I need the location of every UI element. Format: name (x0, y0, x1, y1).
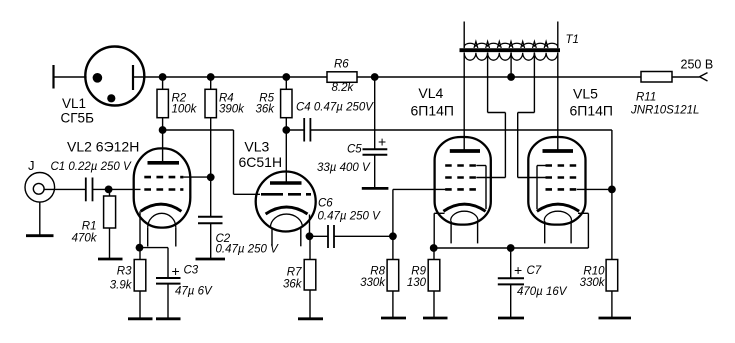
svg-text:+: + (378, 134, 386, 150)
svg-text:100k: 100k (172, 104, 198, 116)
wire (R11 to terminal) (672, 76, 700, 78)
wire (cathode to C3) (140, 248, 169, 278)
transformer T1 secondary winding (464, 43, 558, 47)
wire B+ rail right (357, 76, 641, 78)
VL3 anode bar (270, 181, 302, 185)
svg-text:330k: 330k (360, 277, 386, 289)
resistor R10 (606, 189, 618, 317)
resistor R4 (205, 77, 216, 177)
svg-text:8.2k: 8.2k (332, 82, 355, 94)
svg-text:+: + (172, 263, 180, 279)
svg-text:33µ 400 V: 33µ 400 V (317, 162, 371, 174)
wire B+ rail left (163, 76, 327, 78)
resistor R2 (157, 77, 168, 130)
wire (VL1 to rail) (132, 76, 162, 78)
svg-text:C1 0.22µ 250 V: C1 0.22µ 250 V (51, 161, 132, 173)
wire (junction up to VL4 grid) (393, 189, 446, 236)
VL1 anode bar (132, 65, 134, 90)
node (VL2 cathode junction) (136, 244, 144, 252)
wire (VL3 cathode lead) (309, 215, 311, 237)
VL1 cathode dot (93, 73, 103, 83)
resistor R6 (327, 72, 357, 83)
svg-text:R11: R11 (636, 92, 656, 104)
ground (jack) (26, 234, 54, 237)
wire (VL4 cathode lead) (434, 213, 444, 248)
wire (VL5 cathode lead) (578, 213, 588, 248)
svg-text:36k: 36k (255, 104, 275, 116)
wire (VL3 heater legs) (272, 228, 301, 246)
wire (T1 UL tap to VL5 screen) (518, 52, 535, 177)
ground (C2) (196, 258, 226, 261)
wire (T1 UL tap to VL4 screen) (488, 52, 506, 177)
capacitor C1 (86, 178, 93, 202)
VL5 screen grid g2 (546, 176, 577, 179)
wire (VL2 anode lead) (162, 130, 164, 163)
svg-text:390k: 390k (219, 104, 245, 116)
VL5 suppressor grid g3 (546, 164, 577, 167)
VL2 anode bar (148, 161, 180, 165)
svg-text:130: 130 (407, 277, 427, 289)
wire (jack to C1) (44, 188, 86, 190)
wire (VL3 anode lead) (285, 130, 287, 183)
resistor R3 (134, 248, 146, 318)
tube VL4 envelope (435, 137, 491, 225)
wire (T1 left end to VL4 anode) (463, 52, 465, 151)
svg-text:T1: T1 (566, 34, 579, 46)
capacitor C4 (304, 118, 310, 142)
svg-text:6П14П: 6П14П (570, 102, 613, 118)
capacitor C2 (198, 217, 223, 223)
ground (R9) (423, 317, 448, 320)
node (VL5 g1 / R10 / C4 line) (608, 186, 616, 194)
wire (T1 centre tap to rail) (510, 52, 512, 77)
node (C6 / R8 / VL4 grid) (389, 232, 397, 240)
VL5 anode bar (543, 149, 574, 153)
wire (T1 right end to VL5 anode) (557, 52, 559, 151)
VL2 heater (148, 213, 176, 227)
resistor R5 (281, 77, 292, 130)
ground (C3) (156, 317, 181, 320)
svg-text:3.9k: 3.9k (110, 280, 133, 292)
svg-text:VL2 6Э12Н: VL2 6Э12Н (67, 139, 139, 155)
wire (VL5 g1 to R10 node) (577, 188, 612, 190)
VL5 control grid g1 (546, 188, 577, 191)
wire (C7 to ground) (510, 284, 512, 317)
wire (rail to C5) (374, 77, 376, 149)
resistor R7 (304, 236, 316, 318)
VL4 control grid g1 (445, 188, 476, 191)
wire (R5 node to C4) (286, 129, 304, 131)
transformer T1 core (460, 48, 561, 52)
svg-text:R9: R9 (411, 266, 426, 278)
svg-text:R8: R8 (370, 266, 385, 278)
VL4 suppressor grid g3 (445, 164, 476, 167)
wire (VL4 g2 stub to UL tap) (476, 177, 505, 179)
wire (to VL1) (54, 76, 87, 78)
wire (C4 to VL5 grid riser) (310, 130, 612, 189)
wire (VL4 heater legs) (451, 221, 478, 244)
capacitor C3 (156, 278, 181, 284)
VL5 heater (544, 211, 571, 221)
svg-text:C5: C5 (347, 144, 362, 156)
resistor R11 (641, 72, 672, 83)
svg-text:R7: R7 (287, 267, 302, 279)
ground (R1) (98, 258, 123, 261)
capacitor C7 (498, 278, 524, 284)
VL2 screen grid g2 (144, 176, 175, 179)
VL3 heater (270, 214, 302, 227)
svg-text:R3: R3 (117, 266, 132, 278)
terminal 250 B (700, 73, 708, 81)
svg-text:C3: C3 (184, 265, 199, 277)
wire (VL2 cathode lead) (139, 211, 141, 247)
VL4 cathode (443, 204, 485, 211)
wire (R4 to C2) (210, 177, 212, 216)
wire (C6 to R8 junction) (334, 235, 393, 237)
VL5 cathode (537, 204, 579, 211)
ground (R3) (128, 317, 153, 320)
VL4 screen grid g2 (445, 176, 476, 179)
svg-text:330k: 330k (580, 277, 606, 289)
svg-text:VL4: VL4 (418, 85, 443, 101)
node (R5 bottom / VL3 anode / C4) (282, 126, 290, 134)
VL4 heater (451, 211, 478, 221)
node (bus at C7) (507, 244, 515, 252)
wire (bus to C7) (510, 248, 512, 278)
node (rail at R4) (207, 73, 215, 81)
wire (VL5 g2 stub to UL tap) (518, 177, 546, 179)
svg-text:J: J (28, 158, 35, 173)
svg-text:0.47µ 250 V: 0.47µ 250 V (216, 244, 280, 256)
resistor R1 (104, 189, 116, 258)
svg-text:VL1: VL1 (62, 96, 86, 111)
resistor R9 (428, 248, 440, 317)
node (bus at R9) (430, 244, 438, 252)
ground (R7) (298, 317, 323, 320)
tube VL3 envelope (256, 172, 316, 232)
svg-text:R10: R10 (583, 266, 605, 278)
VL4 anode bar (450, 149, 480, 153)
transformer T1 secondary leads (464, 22, 558, 49)
input jack J (25, 173, 55, 236)
wire (cathode bus) (434, 247, 588, 249)
svg-text:36k: 36k (283, 279, 303, 291)
svg-text:6С51Н: 6С51Н (239, 154, 283, 170)
node (R4 bottom / VL2 screen) (207, 173, 215, 181)
wire (C2 to ground) (210, 223, 212, 258)
node (R2 bottom / VL2 anode) (159, 126, 167, 134)
ground (R10) (599, 317, 632, 320)
node (input junction) (105, 186, 113, 194)
svg-text:C7: C7 (527, 265, 542, 277)
svg-text:C4 0.47µ 250V: C4 0.47µ 250V (296, 102, 374, 114)
wire (VL2 anode to VL3 grid) (163, 130, 260, 194)
ground (R8) (381, 317, 406, 320)
wire (C1 to VL2 grid) (93, 188, 141, 190)
transformer T1 primary winding (464, 53, 558, 60)
wire (C3 to ground) (167, 284, 169, 318)
tube VL2 envelope (134, 148, 191, 227)
svg-text:C6: C6 (318, 198, 333, 210)
node (rail at R2) (159, 73, 167, 81)
svg-text:VL3: VL3 (244, 139, 269, 155)
tube VL5 envelope (528, 137, 585, 225)
svg-text:6П14П: 6П14П (411, 102, 454, 118)
node (rail at C5) (371, 73, 379, 81)
capacitor C6 (328, 225, 334, 248)
wire (VL5 heater legs) (545, 221, 571, 244)
VL1 starter dot (107, 94, 115, 102)
gas tube VL1 envelope (85, 47, 144, 106)
wire (VL4 g3 to cathode) (476, 166, 486, 210)
wire (cathode to C6) (310, 235, 329, 237)
wire (VL2 heater legs) (148, 227, 176, 246)
VL2 cathode (141, 204, 182, 211)
svg-text:250 В: 250 В (681, 58, 714, 72)
svg-text:+: + (514, 262, 522, 278)
svg-text:JNR10S121L: JNR10S121L (630, 105, 699, 117)
svg-text:470µ 16V: 470µ 16V (517, 286, 568, 298)
svg-text:R6: R6 (334, 59, 349, 71)
resistor R8 (387, 236, 399, 317)
VL3 grid (261, 193, 311, 196)
node (rail at R5) (282, 73, 290, 81)
svg-text:0.47µ 250 V: 0.47µ 250 V (318, 211, 382, 223)
wire (VL2 g2 to R4) (183, 176, 210, 178)
svg-text:47µ 6V: 47µ 6V (175, 286, 213, 298)
VL2 control grid g1 (144, 188, 175, 191)
wire (VL5 g3 to cathode) (537, 166, 546, 210)
ground (C5) (362, 187, 389, 190)
node (VL3 cathode / C6 / R7) (306, 232, 314, 240)
gas tube VL1 terminal bar (52, 65, 54, 89)
VL3 cathode (266, 207, 308, 214)
node (rail at T1 centre tap) (507, 73, 515, 81)
capacitor C5 (363, 149, 388, 155)
svg-text:470k: 470k (72, 233, 98, 245)
svg-text:СГ5Б: СГ5Б (61, 110, 95, 125)
ground (C7) (498, 317, 524, 320)
svg-text:VL5: VL5 (573, 86, 598, 102)
svg-text:R1: R1 (82, 221, 97, 233)
wire (C5 to ground) (374, 155, 376, 188)
